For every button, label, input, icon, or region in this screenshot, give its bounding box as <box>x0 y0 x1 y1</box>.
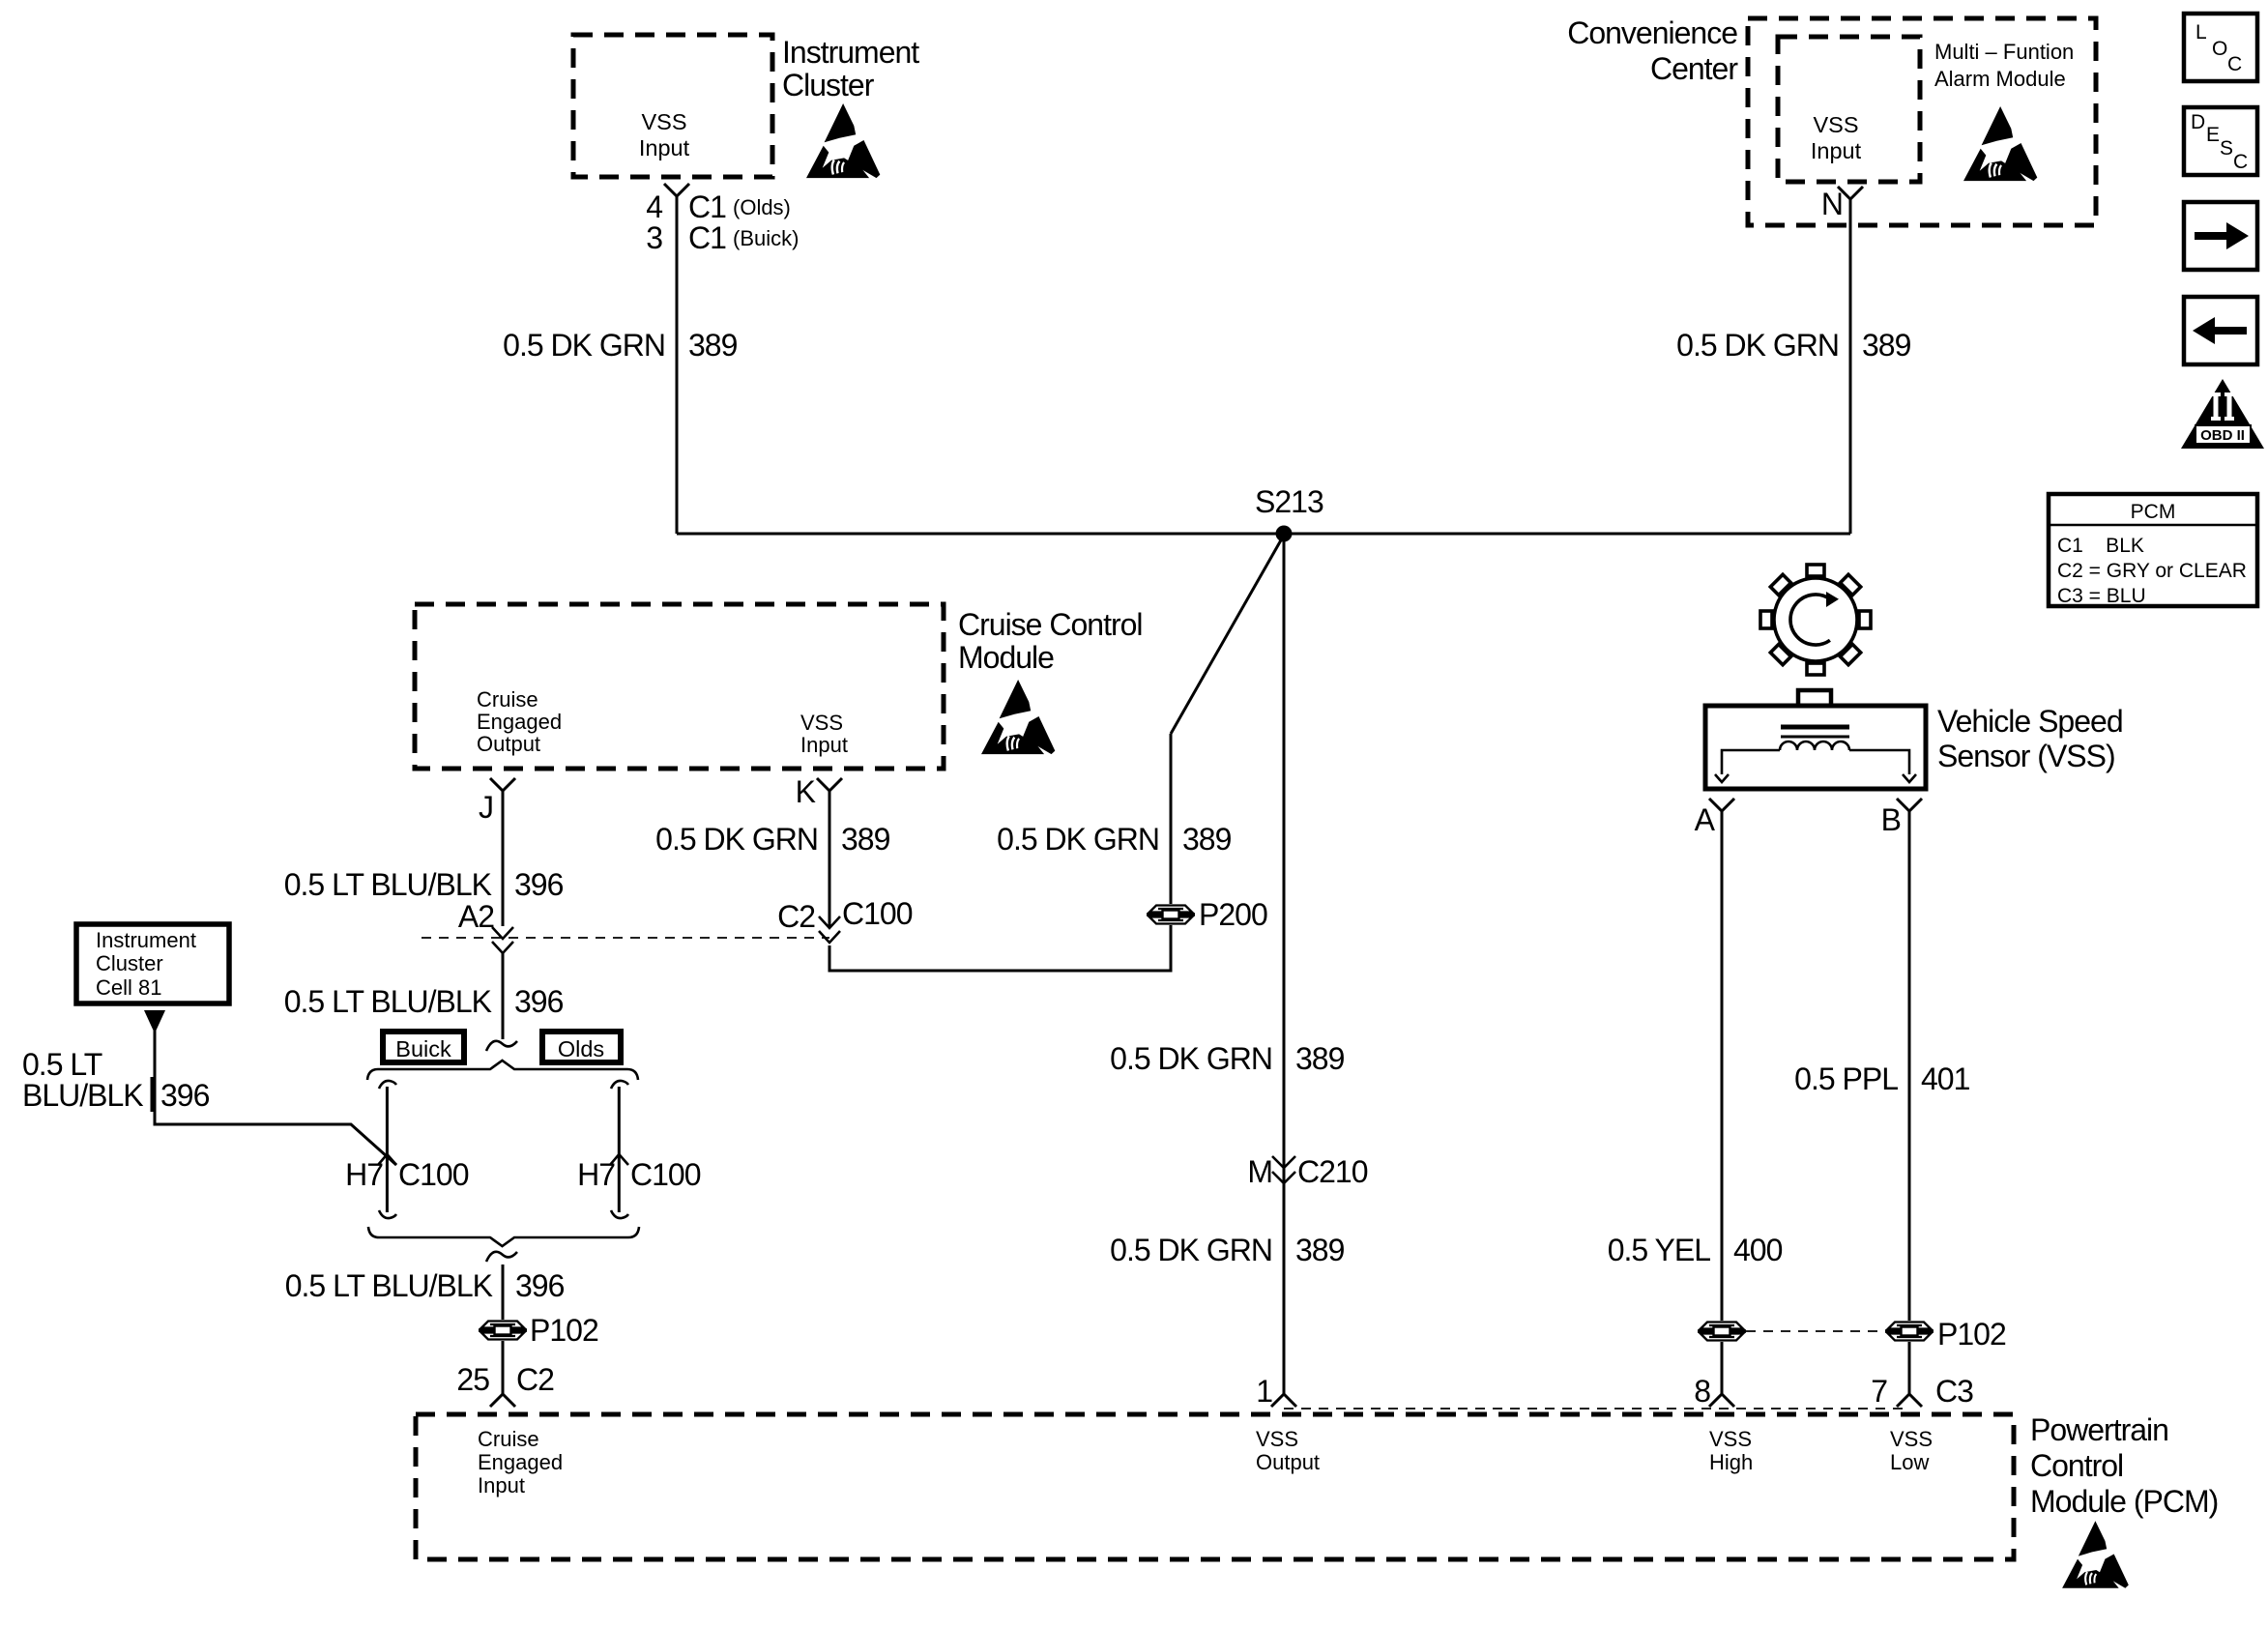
svg-text:Cruise Control: Cruise Control <box>958 607 1143 642</box>
sensor internal leads with arrows <box>1722 750 1780 774</box>
svg-text:0.5 LT BLU/BLK: 0.5 LT BLU/BLK <box>285 1268 493 1303</box>
svg-text:Input: Input <box>800 733 848 757</box>
svg-text:(Olds): (Olds) <box>733 195 791 219</box>
svg-text:Engaged: Engaged <box>477 710 562 734</box>
pin 25 connector Y <box>490 1394 515 1407</box>
wire: S213 diagonal to P200 branch <box>1171 538 1282 734</box>
wire: horizontal bus <box>677 533 1850 536</box>
pin 1 connector Y <box>1271 1394 1296 1407</box>
svg-text:0.5 DK GRN: 0.5 DK GRN <box>503 328 665 363</box>
curl top (right branch) <box>611 1081 628 1089</box>
svg-text:BLU/BLK: BLU/BLK <box>22 1078 143 1113</box>
wire: P102 to PCM pin 8 <box>1721 1342 1724 1394</box>
svg-text:High: High <box>1709 1450 1753 1474</box>
svg-text:P102: P102 <box>530 1313 598 1348</box>
svg-text:400: 400 <box>1733 1233 1783 1267</box>
wire: cell 81 to H7 (left) <box>155 1031 396 1165</box>
connector P102 grommet (A wire) <box>1698 1323 1746 1341</box>
PCM connector dashed face line <box>1284 1408 1909 1410</box>
svg-text:Module (PCM): Module (PCM) <box>2030 1484 2218 1519</box>
svg-text:C100: C100 <box>398 1157 469 1192</box>
svg-text:Cell 81: Cell 81 <box>96 975 161 1000</box>
wire: A2 down to break <box>502 953 505 1039</box>
svg-text:0.5 DK GRN: 0.5 DK GRN <box>997 822 1159 857</box>
svg-text:Convenience: Convenience <box>1567 15 1737 50</box>
sensor core lines <box>1781 725 1849 730</box>
gear icon <box>1760 565 1871 675</box>
svg-text:0.5 DK GRN: 0.5 DK GRN <box>1110 1041 1272 1076</box>
connector C100 A2 arrows <box>492 927 513 939</box>
svg-text:Multi – Funtion: Multi – Funtion <box>1934 40 2074 64</box>
pin J connector Y <box>490 778 515 791</box>
svg-text:0.5 DK GRN: 0.5 DK GRN <box>655 822 818 857</box>
OBD II triangle <box>2181 379 2264 449</box>
svg-text:389: 389 <box>1182 822 1232 857</box>
svg-text:389: 389 <box>688 328 738 363</box>
svg-text:389: 389 <box>1295 1041 1345 1076</box>
svg-text:Cluster: Cluster <box>782 68 875 102</box>
connector H7 C100 arrow (right) <box>610 1154 628 1165</box>
svg-text:C2 = GRY or CLEAR: C2 = GRY or CLEAR <box>2057 560 2247 582</box>
connector P102 grommet (left) <box>479 1322 527 1340</box>
svg-text:Cluster: Cluster <box>96 951 163 975</box>
svg-text:A2: A2 <box>458 899 494 934</box>
svg-text:1: 1 <box>1256 1374 1272 1409</box>
svg-text:3: 3 <box>646 220 662 255</box>
connector C100 C2 arrows <box>819 916 840 928</box>
svg-text:D: D <box>2191 111 2205 133</box>
svg-text:OBD II: OBD II <box>2200 427 2245 444</box>
curl top (left branch) <box>379 1081 396 1089</box>
left arrow box <box>2184 297 2257 364</box>
curl bottom (left branch) <box>379 1210 396 1218</box>
wire: P102 to PCM pin 7 <box>1908 1342 1911 1394</box>
wire: instrument cluster to S213 bus <box>676 196 679 534</box>
svg-text:0.5 LT: 0.5 LT <box>22 1047 102 1082</box>
connector H7 C100 arrow (left) <box>378 1154 396 1165</box>
svg-text:C2: C2 <box>777 899 815 934</box>
svg-text:0.5 LT BLU/BLK: 0.5 LT BLU/BLK <box>284 984 492 1019</box>
svg-text:Output: Output <box>1256 1450 1320 1474</box>
svg-text:0.5 DK GRN: 0.5 DK GRN <box>1110 1233 1272 1267</box>
svg-text:PCM: PCM <box>2131 501 2176 523</box>
wire: K to C100 C2 <box>829 791 831 926</box>
ESD symbol (instrument cluster) <box>806 103 880 178</box>
svg-text:VSS: VSS <box>641 109 686 134</box>
svg-text:Center: Center <box>1650 51 1738 86</box>
svg-text:H7: H7 <box>345 1157 383 1192</box>
pin 4/3 C1 connector Y (instrument cluster) <box>664 184 689 196</box>
svg-text:Powertrain: Powertrain <box>2030 1412 2168 1447</box>
arrow from cell 81 box <box>144 1010 165 1033</box>
svg-text:VSS: VSS <box>1709 1427 1752 1451</box>
svg-text:C3 = BLU: C3 = BLU <box>2057 585 2146 607</box>
svg-text:Input: Input <box>478 1473 525 1497</box>
svg-text:389: 389 <box>1862 328 1911 363</box>
wire: J to C100 A2 <box>502 791 505 926</box>
svg-text:J: J <box>479 790 493 825</box>
sensor coil <box>1780 741 1849 750</box>
svg-text:VSS: VSS <box>1813 112 1858 137</box>
instrument cluster dashed box <box>573 35 772 177</box>
overbrace (split) <box>367 1061 638 1080</box>
svg-text:389: 389 <box>841 822 890 857</box>
svg-text:Output: Output <box>477 732 540 756</box>
wire: P200 branch vertical upper <box>1170 734 1173 904</box>
convenience center outer dashed box <box>1748 18 2096 225</box>
VSS sensor top tab <box>1798 690 1831 706</box>
svg-text:N: N <box>1821 187 1843 221</box>
svg-text:Instrument: Instrument <box>782 35 919 70</box>
multi-function alarm module inner dashed box <box>1778 37 1920 182</box>
svg-text:0.5 YEL: 0.5 YEL <box>1608 1233 1710 1267</box>
connector P102 grommet (B wire) <box>1885 1323 1934 1341</box>
svg-text:Input: Input <box>639 135 690 160</box>
right arrow box <box>2184 202 2257 270</box>
wire: right Olds branch <box>618 1087 621 1212</box>
svg-text:389: 389 <box>1295 1233 1345 1267</box>
wire break squiggle (top) <box>486 1041 517 1051</box>
svg-text:396: 396 <box>514 984 564 1019</box>
svg-text:396: 396 <box>515 1268 565 1303</box>
svg-text:Vehicle Speed: Vehicle Speed <box>1937 704 2123 739</box>
curl bottom (right branch) <box>611 1210 628 1218</box>
svg-text:L: L <box>2195 21 2207 44</box>
svg-text:C2: C2 <box>516 1362 554 1397</box>
svg-text:25: 25 <box>456 1362 489 1397</box>
svg-text:Engaged: Engaged <box>478 1450 563 1474</box>
wire: P102 to PCM pin 25 <box>502 1341 505 1394</box>
svg-text:C3: C3 <box>1935 1374 1973 1409</box>
VSS sensor box <box>1705 706 1926 789</box>
pin N connector Y <box>1838 187 1863 199</box>
connector P200 grommet <box>1147 906 1195 924</box>
svg-text:C: C <box>2233 151 2248 173</box>
P102 dashed link <box>1746 1330 1885 1332</box>
svg-text:(Buick): (Buick) <box>733 226 799 250</box>
svg-text:Cruise: Cruise <box>478 1427 539 1451</box>
svg-text:Sensor (VSS): Sensor (VSS) <box>1937 739 2115 773</box>
ESD symbol (cruise control module) <box>981 680 1055 754</box>
pin 7 connector Y <box>1897 1394 1922 1407</box>
gear rotation arrowhead <box>1826 592 1839 607</box>
svg-text:K: K <box>796 774 816 809</box>
svg-text:A: A <box>1695 802 1716 837</box>
svg-text:401: 401 <box>1921 1061 1970 1096</box>
svg-text:VSS: VSS <box>1890 1427 1933 1451</box>
wire: left Buick branch <box>386 1087 389 1212</box>
svg-text:VSS: VSS <box>1256 1427 1298 1451</box>
svg-text:M: M <box>1247 1154 1272 1189</box>
wire: merge down to P102 <box>502 1265 505 1320</box>
svg-text:Low: Low <box>1890 1450 1929 1474</box>
svg-text:8: 8 <box>1694 1374 1710 1409</box>
svg-text:396: 396 <box>160 1078 210 1113</box>
svg-text:4: 4 <box>646 189 662 224</box>
PCM dashed box <box>416 1414 2014 1559</box>
ESD symbol (PCM) <box>2062 1521 2129 1587</box>
svg-text:S: S <box>2220 137 2233 160</box>
svg-text:C210: C210 <box>1297 1154 1368 1189</box>
svg-text:Buick: Buick <box>395 1036 451 1061</box>
svg-text:C1 BLK: C1 BLK <box>2057 535 2144 557</box>
pin K connector Y <box>817 778 842 791</box>
wire: S213 down to PCM pin 1 <box>1283 534 1286 1394</box>
svg-text:Control: Control <box>2030 1448 2123 1483</box>
connector C100 dashed face line <box>422 937 829 939</box>
svg-text:Input: Input <box>1811 138 1862 163</box>
pin A connector Y <box>1709 799 1734 811</box>
svg-text:VSS: VSS <box>800 711 843 735</box>
svg-text:C1: C1 <box>688 189 726 224</box>
svg-text:C: C <box>2227 53 2242 75</box>
svg-text:396: 396 <box>514 867 564 902</box>
svg-text:Instrument: Instrument <box>96 928 196 952</box>
svg-text:P200: P200 <box>1199 897 1267 932</box>
DESC box <box>2184 107 2257 175</box>
svg-text:C100: C100 <box>630 1157 701 1192</box>
svg-text:C100: C100 <box>842 896 913 931</box>
wire: P200 branch lower, elbow to C100 <box>829 925 1171 971</box>
pin 8 connector Y <box>1709 1394 1734 1407</box>
svg-text:O: O <box>2212 38 2227 60</box>
ESD symbol (alarm module) <box>1963 106 2037 181</box>
svg-text:Cruise: Cruise <box>477 687 538 712</box>
svg-text:E: E <box>2206 124 2220 146</box>
svg-text:Alarm Module: Alarm Module <box>1934 67 2066 91</box>
connector C210 double chevron <box>1272 1156 1295 1168</box>
wire break squiggle (bottom) <box>486 1252 517 1262</box>
svg-text:H7: H7 <box>577 1157 615 1192</box>
pin B connector Y <box>1897 799 1922 811</box>
wire: alarm module to S213 bus <box>1849 199 1852 534</box>
LOC box <box>2184 14 2257 81</box>
svg-text:0.5 LT BLU/BLK: 0.5 LT BLU/BLK <box>284 867 492 902</box>
svg-text:Module: Module <box>958 640 1054 675</box>
svg-text:C1: C1 <box>688 220 726 255</box>
Olds tag box <box>542 1032 621 1062</box>
wire: VSS B to P102 <box>1908 811 1911 1321</box>
instrument cluster cell 81 box <box>76 924 229 1003</box>
wire: VSS A to P102 <box>1721 811 1724 1321</box>
svg-text:S213: S213 <box>1255 484 1323 519</box>
cruise control module dashed box <box>415 604 944 769</box>
svg-text:B: B <box>1881 802 1901 837</box>
Buick tag box <box>383 1032 464 1062</box>
node S213 junction dot <box>1276 526 1293 542</box>
underbrace (merge) <box>368 1227 639 1246</box>
svg-text:0.5 PPL: 0.5 PPL <box>1794 1061 1898 1096</box>
svg-text:P102: P102 <box>1937 1317 2006 1352</box>
svg-text:0.5 DK GRN: 0.5 DK GRN <box>1676 328 1839 363</box>
svg-text:7: 7 <box>1871 1374 1887 1409</box>
svg-text:Olds: Olds <box>558 1036 604 1061</box>
